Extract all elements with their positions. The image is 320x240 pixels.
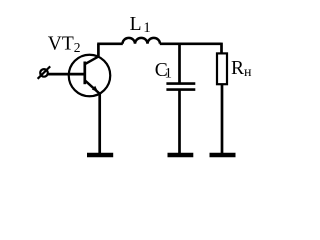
wire: emitter down <box>98 93 101 154</box>
svg-text:R: R <box>231 58 244 79</box>
input terminal <box>38 66 51 78</box>
ground (Rn) <box>210 153 236 157</box>
svg-text:н: н <box>244 65 252 80</box>
wire: top left segment <box>97 42 123 45</box>
svg-text:1: 1 <box>165 66 173 82</box>
svg-text:1: 1 <box>143 20 151 36</box>
inductor L1 <box>123 38 161 44</box>
wire: C1 top <box>178 44 181 83</box>
wire: down to resistor <box>220 43 223 53</box>
capacitor C1 <box>166 84 195 90</box>
ground (C1) <box>168 153 194 157</box>
ground (emitter) <box>87 153 113 157</box>
svg-text:L: L <box>130 14 142 35</box>
wire: terminal to base <box>48 73 85 76</box>
transistor VT2 <box>69 55 111 97</box>
wire: resistor bottom <box>221 85 224 155</box>
wire: collector up <box>97 44 100 57</box>
resistor Rn <box>217 53 227 84</box>
svg-text:VT2: VT2 <box>48 34 81 56</box>
wire: top right segment <box>160 42 222 45</box>
wire: C1 bottom <box>178 90 181 155</box>
